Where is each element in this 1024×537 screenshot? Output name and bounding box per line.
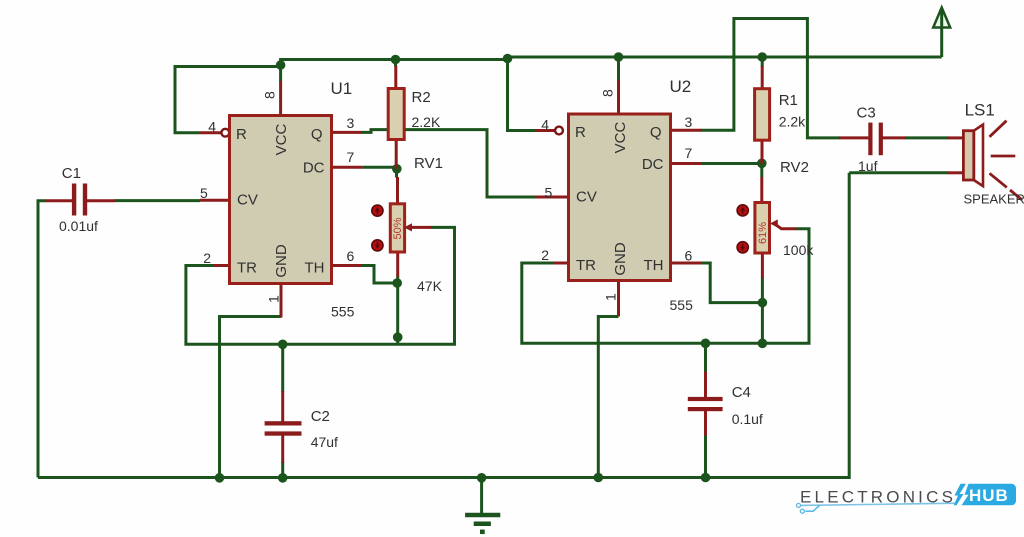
wire VCC rail left segment <box>281 60 508 67</box>
wire R1 bottom stub <box>760 163 763 177</box>
wire C3 to speaker top <box>905 136 949 139</box>
svg-text:4: 4 <box>541 117 549 133</box>
logo ELECTRONICS HUB <box>797 484 1017 513</box>
svg-text:TH: TH <box>644 257 664 274</box>
wire C1 right to U1 CV <box>114 199 200 202</box>
svg-text:Q: Q <box>650 124 662 141</box>
node C4 top junction <box>701 339 711 349</box>
node C2 top junction <box>278 340 288 350</box>
svg-text:CV: CV <box>576 189 597 206</box>
node VCC junction at U2 branch <box>503 54 513 64</box>
speaker LS1 <box>948 125 984 187</box>
svg-text:8: 8 <box>600 89 616 97</box>
svg-text:R: R <box>575 124 586 141</box>
wire U1 TR net line1 <box>186 227 455 344</box>
op-amp U2 body <box>569 114 671 281</box>
speaker sound ray upper <box>990 121 1007 137</box>
svg-text:HUB: HUB <box>969 486 1009 505</box>
svg-text:47K: 47K <box>417 278 443 294</box>
capacitor C3 <box>839 123 906 156</box>
svg-text:0.1uf: 0.1uf <box>732 411 763 427</box>
svg-text:4: 4 <box>208 119 216 135</box>
node line2 junction below RV2 <box>758 339 768 349</box>
op-amp U1 body <box>230 116 332 284</box>
wire RV1 bottom to line1 <box>396 276 399 345</box>
svg-text:2: 2 <box>203 250 211 266</box>
pin 4 inversion bubble U2 <box>555 127 563 135</box>
wire U1 pin7 to RV1 junction <box>363 167 397 169</box>
svg-text:5: 5 <box>200 185 208 201</box>
wire speaker bottom return <box>849 171 948 174</box>
node VCC junction above U2 pin 8 <box>614 52 624 62</box>
RV2 decrement button <box>737 242 748 253</box>
svg-text:U1: U1 <box>331 79 353 98</box>
resistor R2 <box>388 60 404 170</box>
svg-text:C1: C1 <box>62 165 81 182</box>
svg-text:555: 555 <box>331 304 355 320</box>
node RV2 bottom junction <box>758 298 768 308</box>
svg-text:3: 3 <box>685 114 693 130</box>
svg-text:6: 6 <box>685 248 693 264</box>
wire bottom ground rail <box>38 173 849 478</box>
node rail junction U2 pin1 <box>594 473 604 483</box>
wire U2 pin4 branch <box>508 60 536 131</box>
op-amp U1 555 timer pin leads <box>200 81 363 318</box>
wire U2 pin8 lead <box>617 57 620 81</box>
RV2 increment button <box>737 205 748 216</box>
capacitor C1 <box>45 184 115 216</box>
wire U2 pin6 to RV2 bottom <box>700 263 763 303</box>
svg-text:8: 8 <box>262 91 278 99</box>
svg-text:2.2k: 2.2k <box>779 114 806 130</box>
svg-text:1: 1 <box>603 293 619 301</box>
svg-text:R2: R2 <box>412 89 431 106</box>
svg-text:7: 7 <box>685 145 693 161</box>
wire U1 reset branch to pin 4 <box>175 67 281 133</box>
wire C4 top branch <box>704 343 707 372</box>
svg-text:6: 6 <box>347 248 355 264</box>
capacitor C4 <box>688 372 723 436</box>
svg-text:TR: TR <box>237 260 257 277</box>
svg-text:47uf: 47uf <box>311 434 338 450</box>
svg-text:100k: 100k <box>783 242 814 258</box>
svg-text:CV: CV <box>237 192 258 209</box>
wire U1 pin 8 lead <box>279 63 282 82</box>
RV1 increment button <box>372 205 383 216</box>
potentiometer RV1 <box>390 177 431 277</box>
node U1 DC junction <box>392 164 402 174</box>
svg-text:LS1: LS1 <box>965 101 995 120</box>
svg-text:DC: DC <box>642 156 664 173</box>
svg-text:TR: TR <box>576 257 596 274</box>
svg-text:61%: 61% <box>757 222 769 244</box>
speaker sound ray middle <box>991 155 1016 158</box>
svg-text:555: 555 <box>670 297 694 313</box>
node RV1 bottom junction <box>392 278 402 288</box>
svg-text:1: 1 <box>266 295 282 303</box>
svg-text:50%: 50% <box>392 217 404 239</box>
wire U2 TR net line2 <box>522 229 809 343</box>
wire C2 top branch <box>281 344 284 392</box>
pin 4 inversion bubble U1 <box>221 129 229 137</box>
wire C2 bottom to rail <box>281 462 284 478</box>
svg-text:U2: U2 <box>670 77 692 96</box>
svg-text:SPEAKER: SPEAKER <box>964 192 1024 207</box>
svg-text:2.2K: 2.2K <box>412 114 441 130</box>
wire C1 left to bottom rail <box>38 201 46 478</box>
node VCC junction above R2 <box>391 55 401 65</box>
svg-text:1uf: 1uf <box>858 158 878 174</box>
svg-text:5: 5 <box>545 185 553 201</box>
power terminal arrow <box>933 8 950 58</box>
svg-text:3: 3 <box>347 115 355 131</box>
node line1 junction below RV1 <box>393 332 403 342</box>
node VCC junction above U1 pin 8 <box>276 60 286 70</box>
RV1 decrement button <box>372 240 383 251</box>
node VCC junction above R1 <box>757 52 767 62</box>
svg-text:R: R <box>236 126 247 143</box>
node rail junction x219 <box>215 473 225 483</box>
wire U1 pin6 to RV1 bottom <box>361 266 397 284</box>
wire U1 pin1 ground path <box>220 317 282 478</box>
node rail junction ground <box>477 473 487 483</box>
wire U2 pin3 output staircase to C3 <box>700 19 840 138</box>
speaker sound ray lower <box>990 173 1007 187</box>
svg-text:0.01uf: 0.01uf <box>59 218 98 234</box>
svg-text:RV1: RV1 <box>414 155 443 172</box>
wire R2 bottom stub <box>395 169 398 178</box>
speaker sound ray lower outer <box>1010 190 1022 200</box>
wire U1 pin3 output to U2 CV <box>361 130 535 197</box>
svg-text:R1: R1 <box>779 92 798 109</box>
svg-text:DC: DC <box>303 160 325 177</box>
svg-text:TH: TH <box>305 260 325 277</box>
svg-text:7: 7 <box>347 149 355 165</box>
svg-text:GND: GND <box>612 242 629 276</box>
wire C4 bottom to rail <box>704 435 707 478</box>
wire U2 pin7 to RV2 junction <box>702 162 762 165</box>
wire U2 pin1 ground path <box>598 317 618 478</box>
resistor R1 <box>755 57 770 164</box>
ground symbol <box>465 478 500 532</box>
svg-text:C4: C4 <box>732 384 751 401</box>
svg-text:RV2: RV2 <box>780 159 809 176</box>
node rail junction C4 <box>701 473 711 483</box>
svg-text:2: 2 <box>541 247 549 263</box>
wire VCC rail right segment <box>508 57 942 60</box>
capacitor C2 <box>265 391 302 463</box>
svg-text:Q: Q <box>311 126 323 143</box>
node U2 DC junction <box>757 159 767 169</box>
svg-text:VCC: VCC <box>273 123 290 155</box>
potentiometer RV2 <box>755 177 797 278</box>
wire RV2 bottom to line2 <box>761 277 764 343</box>
svg-text:VCC: VCC <box>612 121 629 153</box>
svg-text:GND: GND <box>273 244 290 278</box>
op-amp U2 555 timer pin leads <box>535 80 702 317</box>
svg-text:C3: C3 <box>857 105 876 122</box>
svg-text:C2: C2 <box>311 408 330 425</box>
node rail junction C2 <box>278 473 288 483</box>
